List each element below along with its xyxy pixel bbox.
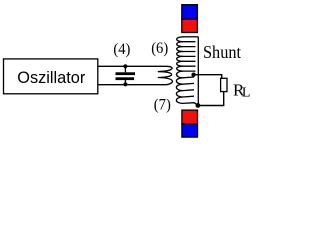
svg-text:L: L	[242, 86, 251, 101]
svg-text:(6): (6)	[151, 40, 168, 57]
svg-text:(7): (7)	[154, 96, 171, 113]
svg-text:Oszillator: Oszillator	[17, 69, 85, 87]
svg-text:Shunt: Shunt	[203, 42, 241, 62]
svg-text:(4): (4)	[113, 41, 130, 58]
